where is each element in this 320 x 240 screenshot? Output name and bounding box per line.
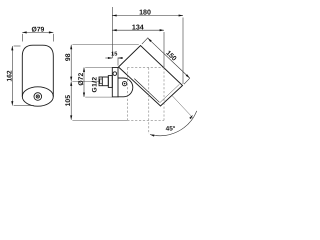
svg-text:45°: 45° [166,125,176,132]
svg-text:15: 15 [111,52,117,58]
svg-text:Ø72: Ø72 [78,73,85,86]
svg-text:105: 105 [65,95,72,107]
svg-text:G1/2: G1/2 [91,77,98,93]
svg-text:Ø79: Ø79 [31,27,44,34]
svg-text:134: 134 [132,23,144,31]
svg-text:98: 98 [65,53,72,61]
svg-text:162: 162 [6,70,13,82]
svg-text:180: 180 [139,9,151,17]
